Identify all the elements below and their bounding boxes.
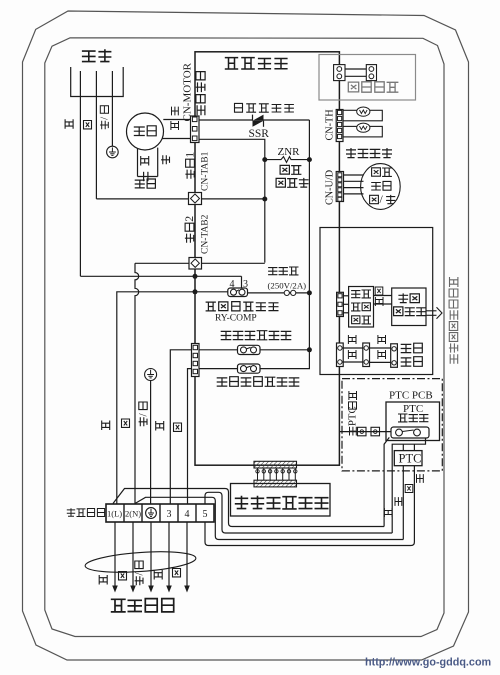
wire limit sw top 1-2 — [343, 347, 363, 349]
wire hv to purifier 2 — [374, 303, 392, 305]
arrowhead 3 — [166, 586, 172, 593]
svg-text:1: 1 — [183, 152, 197, 158]
label HV 高压 — [351, 290, 371, 298]
wire motor yellow lead to capacitor — [157, 148, 159, 177]
ground symbol (power earth) — [107, 146, 119, 158]
wire SSR to right bus — [264, 119, 310, 121]
label blue 蓝 (outdoor) — [119, 572, 127, 580]
fan motor M 电机 — [127, 113, 164, 150]
connector HV generator — [337, 292, 344, 316]
wire hv 3 — [343, 312, 348, 314]
label blue 蓝 — [84, 121, 92, 129]
label motor plug 电机插头 (vertical) — [196, 72, 206, 116]
label yellow/green 黄/绿 — [99, 106, 111, 130]
junction ZNR left — [262, 157, 267, 162]
wire CN-TAB1 to bus — [202, 198, 265, 200]
varistor ZNR — [265, 157, 310, 163]
label thermistor 热敏电阻 — [346, 148, 392, 158]
wire yellow-green power (PE) — [111, 71, 113, 147]
display circuit board 显示器线路板 box — [231, 484, 331, 517]
wire hv to purifier 1 — [374, 295, 392, 297]
label red 红 (outdoor) — [173, 569, 181, 577]
wire yellow-green to terminal — [150, 381, 152, 505]
PTC heater box — [394, 451, 422, 466]
label diode 二极管 — [276, 178, 309, 188]
connector terminal strip (board left) — [192, 344, 200, 377]
label brown 棕 — [65, 119, 73, 129]
label: power supply 电源 — [82, 49, 112, 62]
wire stepper 3 — [344, 187, 364, 189]
wire limit sw bottom 1-2 — [343, 361, 363, 363]
wire hood outer — [113, 489, 384, 527]
stepper motor 步进电机 — [361, 164, 401, 210]
capacitor C 电容 symbol — [144, 172, 148, 181]
arrowhead 4 — [184, 586, 190, 593]
wire brown power (L) — [79, 71, 81, 276]
forced operation 强制运行 box — [319, 55, 416, 101]
wire red to terminal 4 — [188, 369, 192, 504]
air purifier section box — [320, 228, 433, 375]
wire limit sw top 2-3 — [370, 347, 391, 349]
terminal block 接线端子 — [106, 504, 214, 522]
wire to outdoor unit 1 — [114, 522, 116, 586]
connector CN-TAB1 — [189, 193, 202, 205]
svg-text:4: 4 — [185, 509, 190, 520]
label plug1 插头1 (vertical) — [183, 152, 197, 179]
svg-text:ZNR: ZNR — [278, 146, 301, 158]
label black 黑 (terminal wire) — [156, 421, 164, 431]
svg-text:3: 3 — [167, 509, 172, 520]
svg-text:PTC PCB: PTC PCB — [389, 390, 433, 402]
label red 红 (hv) — [375, 287, 383, 295]
connector CN-U/D — [336, 172, 343, 202]
junction 4-way valve relay — [307, 347, 312, 352]
svg-text:PTC: PTC — [403, 403, 423, 415]
wire hv 1 — [343, 295, 348, 297]
wire stepper 1 — [344, 174, 364, 176]
svg-text:CN-TAB2: CN-TAB2 — [201, 214, 211, 254]
wire to outdoor unit 4 — [186, 522, 188, 586]
wire strip to outdoor relay — [199, 368, 238, 370]
wire bus tap to PTC relay — [339, 431, 391, 433]
wire bus to outdoor relay — [260, 350, 309, 369]
label blue 蓝 (terminal wire) — [122, 419, 130, 427]
wire strip to 4way relay — [199, 349, 238, 351]
wire to outdoor unit 2 — [132, 522, 134, 586]
svg-text:(250V/2A): (250V/2A) — [268, 281, 307, 291]
wire brown terminal 1 — [117, 292, 228, 504]
wire CN-TAB2 right to SSR bus — [202, 262, 265, 264]
PTC relay connector squares — [358, 427, 380, 436]
wire run1 up to PTC relay left — [384, 437, 389, 526]
label main board 主线路板 — [225, 58, 288, 69]
wire stepper 4 — [344, 193, 364, 195]
high voltage generator 高压发生装置 box — [349, 287, 374, 328]
main circuit board 主线路板 outline — [195, 52, 339, 465]
wire stepper 2 — [344, 180, 364, 182]
svg-text:RY-COMP: RY-COMP — [215, 314, 257, 324]
label red 红 (terminal wire) — [174, 423, 182, 431]
wire motor black — [162, 138, 190, 140]
terminal earth symbol — [146, 508, 157, 519]
label 4-way valve relay 四通阀继电器 — [221, 331, 292, 340]
wire terminal5 bottom run — [205, 522, 414, 546]
connector CN-MOTOR — [191, 116, 200, 143]
wire PTC stub 1 — [402, 444, 404, 450]
junction fuse output — [307, 290, 312, 295]
connector CN-TAB2 — [189, 258, 202, 270]
label black 黑 — [171, 121, 179, 130]
svg-text:1(L): 1(L) — [107, 509, 122, 519]
label regulator 稳压 — [280, 165, 301, 174]
svg-text:PTC: PTC — [399, 452, 422, 466]
wire hood inner — [135, 497, 403, 539]
connector CN-TH — [336, 110, 343, 142]
label solid state relay 固态继电器 — [235, 103, 294, 112]
wire forced-run 1 — [345, 68, 366, 70]
label to outdoor unit 至室外机 — [111, 599, 174, 612]
label capacitor 电容 — [135, 179, 156, 188]
arrowhead 2 — [130, 586, 136, 593]
connector limit switch 3 — [391, 344, 398, 368]
wire hv 2 — [343, 303, 348, 305]
svg-text:CN-MOTOR: CN-MOTOR — [182, 62, 194, 121]
label relay 继电器 (PTC) — [398, 414, 428, 422]
junction CN-TAB1 tap — [262, 197, 267, 202]
label orange 橙 (ptc) — [417, 474, 424, 483]
label PTC only 仅PTC适用 (vertical) — [347, 391, 359, 436]
svg-text:2: 2 — [182, 216, 196, 222]
wire black to terminal 3 — [170, 350, 191, 504]
label plug2 插头2 (vertical) — [182, 216, 196, 243]
compressor relay RY-COMP — [228, 288, 248, 297]
wire capacitor bottom — [138, 176, 158, 178]
forced-run connector A — [334, 65, 345, 81]
wire bus fuse to relays — [308, 293, 310, 350]
label motor 电机 — [134, 126, 156, 136]
junction brown power on board edge — [193, 274, 198, 279]
label outdoor motor relay 室外电机继电器 — [217, 377, 300, 387]
inner chassis frame — [45, 38, 444, 637]
svg-text:2(N): 2(N) — [125, 509, 141, 519]
wire limit sw bottom 2-3 — [370, 361, 391, 363]
svg-text:5: 5 — [203, 509, 208, 520]
label stepper motor 电机 — [371, 181, 391, 190]
wire 4way relay to bus — [260, 349, 309, 351]
label brown 棕 (outdoor) — [99, 575, 107, 585]
PTC relay contacts — [391, 427, 429, 438]
thermistor 1 — [343, 107, 382, 121]
junction ZNR right — [307, 157, 312, 162]
wire brown power to relay coil — [80, 275, 241, 277]
wire CN-TAB2 left — [135, 262, 189, 264]
wire run4 up to PTC box — [413, 466, 415, 538]
label brown 棕 (motor) — [141, 156, 149, 166]
wire blue to terminal 2 (with hops) — [135, 263, 139, 504]
ribbon cable connector (main board to display board) — [256, 468, 297, 480]
wire forced-run 2 — [345, 75, 366, 77]
thermistor 2 — [343, 123, 382, 137]
cable bundle oval — [84, 549, 196, 576]
wire CN-MOTOR pin1 to SSR — [199, 119, 253, 121]
label up/down 上/下 — [370, 192, 396, 206]
connector limit switch 1 — [337, 343, 344, 367]
wire relay coil drop — [241, 276, 243, 288]
label switch 开关 — [401, 357, 423, 367]
junction brown terminal on board edge — [193, 289, 198, 294]
label brown 棕 (ptc) — [384, 508, 392, 517]
wire blue power to CN-TAB1 — [96, 198, 188, 200]
ground symbol (terminal earth) — [145, 369, 157, 381]
label yellow/green 黄/绿 (outdoor) — [133, 561, 145, 585]
svg-text:CN-U/D: CN-U/D — [325, 170, 336, 205]
four-way valve relay — [238, 345, 261, 354]
outdoor fan motor relay — [238, 364, 261, 373]
wire right bus (SSR output) — [308, 120, 310, 293]
label yellow 黄 (motor) — [161, 155, 170, 164]
svg-text:SSR: SSR — [249, 128, 270, 140]
wire to outdoor unit 3 — [168, 522, 170, 586]
label orange 橙 — [172, 107, 179, 116]
svg-text:CN-TAB1: CN-TAB1 — [201, 151, 211, 191]
arrowhead earth — [148, 586, 154, 593]
air outlet arrow — [426, 307, 442, 319]
label black 黑 (ls3) — [348, 350, 356, 359]
label HV 装置 — [352, 316, 371, 324]
PTC PCB box (dash-dot) — [342, 379, 442, 471]
label yellow/green 黄/绿 (terminal wire) — [137, 402, 149, 426]
label terminal block 接线端子 — [67, 508, 105, 516]
label purifier 空气 — [398, 293, 419, 303]
wire motor brown lead to capacitor — [137, 149, 139, 177]
wire motor orange — [163, 119, 190, 121]
label black 黑 (outdoor) — [154, 570, 162, 580]
wire terminal5 top run — [205, 492, 392, 533]
label purifier 净化器 — [394, 307, 427, 316]
label stepper 步进 — [372, 168, 392, 177]
wire CN-MOTOR pin3 to bus — [199, 139, 265, 262]
air purifier 空气净化器 box — [392, 288, 426, 326]
wire blue power (N) — [95, 71, 97, 199]
label compressor relay 压缩机继电器 — [206, 302, 279, 311]
arrowhead 1 — [112, 586, 118, 593]
label air purifier model note (vertical) — [449, 277, 458, 364]
label black 黑 (ls2) — [378, 335, 386, 344]
svg-text:http://www.go-gddq.com: http://www.go-gddq.com — [365, 657, 491, 669]
label brown 棕 (terminal wire) — [102, 421, 110, 431]
label black 黑 (ls1) — [348, 335, 356, 344]
wire PTC stub 2 — [413, 444, 415, 450]
wire run2 up to PTC relay right — [392, 437, 425, 533]
solid state relay SSR (triac symbol) — [253, 115, 264, 127]
label limit 限位 — [401, 343, 423, 353]
fuse F1 250V/2A symbol — [284, 290, 296, 295]
connector limit switch 2 — [363, 343, 370, 367]
label black 黑 (ls4) — [378, 350, 386, 359]
PTC relay 继电器 box — [386, 402, 440, 441]
label HV 发生 — [351, 303, 370, 311]
svg-text:CN-TH: CN-TH — [325, 109, 336, 141]
label forced operation 强制运行 — [348, 82, 398, 92]
label black 黑 (hv) — [375, 297, 383, 306]
label blue 蓝 (ptc) — [405, 485, 413, 493]
wire power bracket — [71, 67, 124, 97]
forced-run connector B — [366, 65, 376, 81]
wire to outdoor unit earth — [150, 522, 152, 586]
wire relay to fuse — [248, 292, 310, 294]
label display board 显示器线路板 — [235, 496, 329, 509]
label orange 橙 (ptc2) — [395, 497, 402, 506]
wire run3 up to PTC box — [402, 466, 404, 540]
label fuse 保险丝 — [268, 267, 298, 275]
